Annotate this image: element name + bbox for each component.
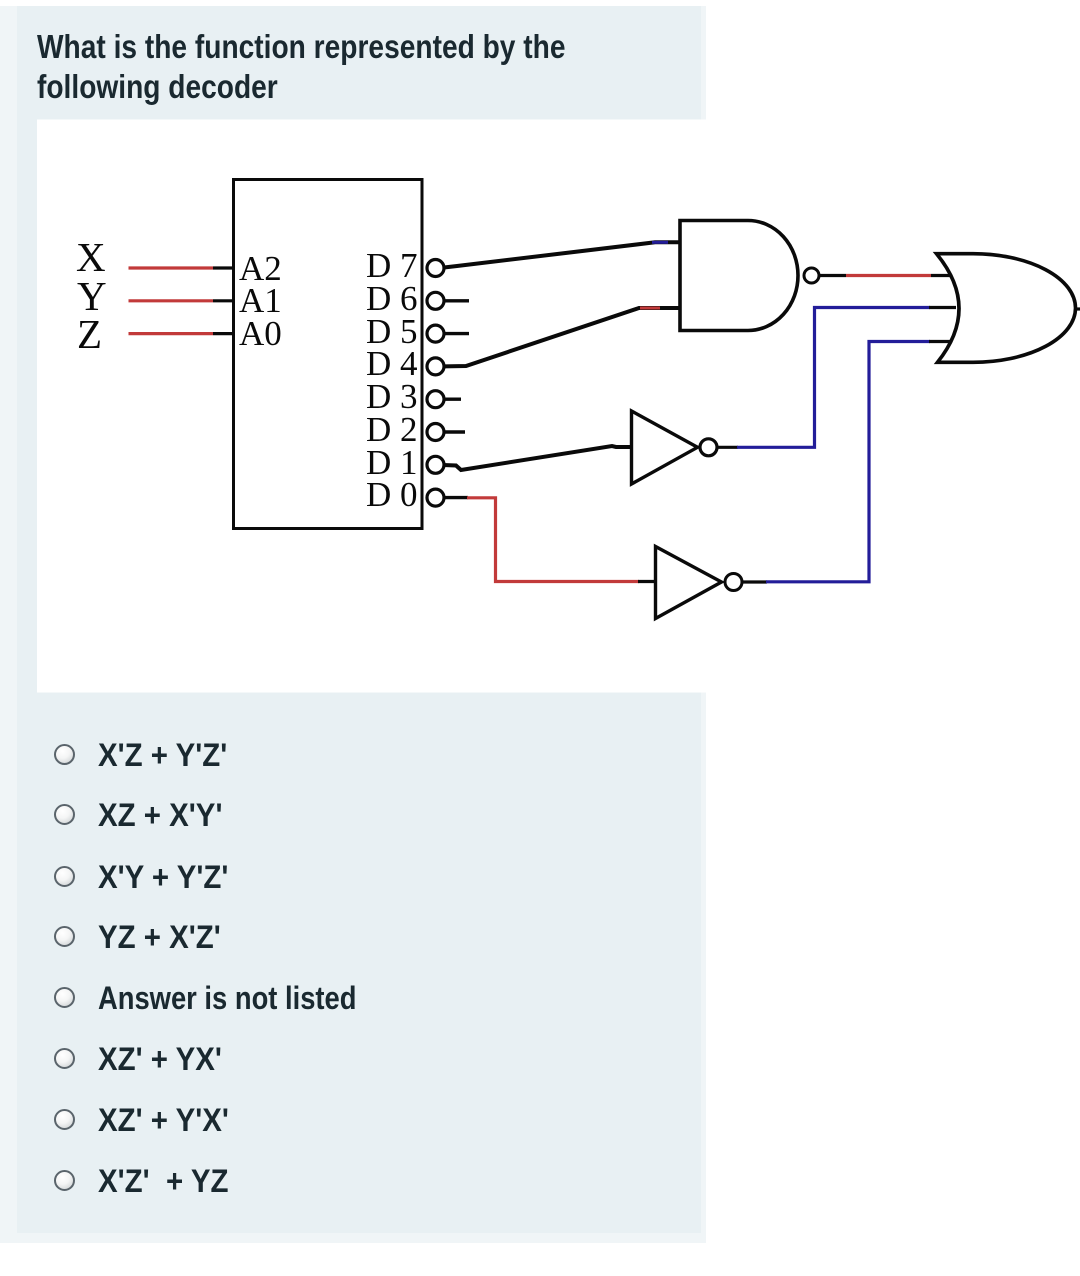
wire blue to OR middle input <box>929 306 956 309</box>
answer option 7 <box>0 1119 700 1121</box>
wire red to OR top input <box>931 274 951 277</box>
wire Z to A0 <box>213 332 234 335</box>
wire U3 to OR middle (blue) <box>737 308 930 448</box>
inverter U4 <box>656 547 722 619</box>
answer option 2 <box>0 814 700 816</box>
wire D7 to NAND top input <box>444 242 680 267</box>
output bubble D2 <box>427 424 444 441</box>
answer option 4 <box>0 936 700 938</box>
wire NAND bubble out <box>819 274 846 277</box>
answer option 3 <box>0 875 700 877</box>
output bubble D7 <box>427 260 444 277</box>
wire NAND to OR (red) <box>846 274 931 277</box>
output bubble D6 <box>427 292 444 309</box>
wire D0 stub <box>444 496 468 499</box>
wire D1 to inverter U3 <box>443 446 632 470</box>
inverter U4 bubble <box>725 574 742 591</box>
wire Y (red) <box>129 299 214 302</box>
wire segment blue on D7 line <box>652 241 668 244</box>
answer option 8 <box>0 1180 700 1182</box>
wire Z (red) <box>129 332 214 335</box>
answer option 5 <box>0 996 700 998</box>
output bubble D1 <box>427 456 444 473</box>
circuit image background <box>37 120 1080 693</box>
wire segment red on D4 line <box>640 307 660 310</box>
NAND gate U2 <box>680 221 798 331</box>
NAND output bubble <box>804 268 819 283</box>
wire U3 out black <box>717 446 738 449</box>
svg-text:Z: Z <box>77 311 102 357</box>
wire D4 to NAND bottom input <box>444 308 680 366</box>
answer option 6 <box>0 1057 700 1059</box>
stub D6 <box>444 299 469 302</box>
wire blue to OR bottom input <box>929 340 951 343</box>
svg-text:A0: A0 <box>239 314 282 353</box>
wire X (red) <box>129 266 214 269</box>
wire U4 to OR bottom (blue) <box>766 342 930 582</box>
output bubble D0 <box>427 489 444 506</box>
decoder U1 <box>234 180 423 529</box>
output bubble D3 <box>427 391 444 408</box>
stub D5 <box>444 332 469 335</box>
stub D3 <box>444 398 461 401</box>
wire red to U4 input <box>638 580 656 583</box>
OR gate U5 <box>937 254 1076 363</box>
output bubble D5 <box>427 325 444 342</box>
wire U4 out black <box>742 580 767 583</box>
output bubble D4 <box>427 358 444 375</box>
wire OR output stub <box>1074 307 1080 310</box>
wire X to A2 <box>213 266 234 269</box>
inverter U3 <box>632 411 698 484</box>
svg-text:D 0: D 0 <box>366 475 418 514</box>
inverter U3 bubble <box>700 439 717 456</box>
answer option 1 <box>0 753 700 755</box>
wire Y to A1 <box>213 299 234 302</box>
wire D0 to inverter U4 (red) <box>467 498 639 582</box>
stub D2 <box>444 430 465 433</box>
